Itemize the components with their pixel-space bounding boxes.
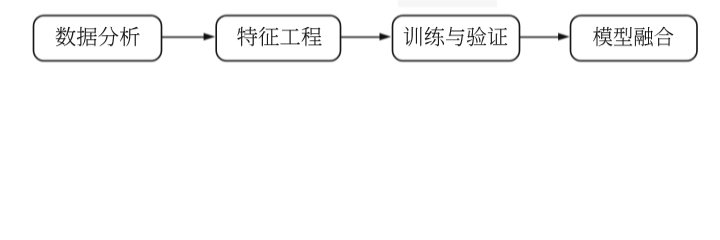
label text "模型融合" <box>593 27 673 46</box>
label text "特征工程" <box>237 27 321 46</box>
arrow connector 1: wire <box>161 36 205 38</box>
flowchart diagram: 数据分析 -> 特征工程 -> 训练与验证 -> 模型融合 <box>0 0 720 82</box>
process box 3 训练与验证: rounded rectangle <box>393 16 520 61</box>
soft shadows of label texts <box>56 27 674 46</box>
process box 4 模型融合: rounded rectangle <box>571 16 698 61</box>
label text "数据分析" <box>56 27 140 46</box>
arrowhead 1 <box>204 33 216 40</box>
arrowhead 3 <box>558 33 570 40</box>
arrow connector 3: wire <box>520 36 560 38</box>
faint gray artifact patch top centre <box>398 0 497 7</box>
process box 1 数据分析: rounded rectangle <box>34 16 162 61</box>
process box 2 特征工程: rounded rectangle <box>216 16 340 61</box>
arrowhead 2 <box>380 33 392 40</box>
arrow connector 2: wire <box>341 36 382 38</box>
label text "训练与验证" <box>404 27 508 46</box>
